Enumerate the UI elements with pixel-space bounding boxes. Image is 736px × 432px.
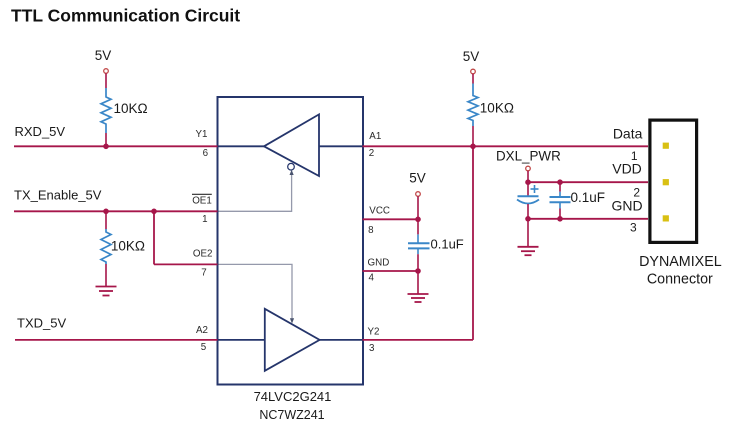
resistor R1 10K pull-up (blue zigzag) [101, 88, 111, 133]
svg-text:RXD_5V: RXD_5V [15, 124, 66, 139]
wire C3 top lead [559, 182, 561, 192]
wire 5V to resistor R2 [472, 74, 474, 84]
wire RXD_5V to Y1 [14, 145, 218, 147]
svg-text:3: 3 [369, 343, 375, 354]
junction RXD/R1 [103, 144, 109, 150]
svg-text:TX_Enable_5V: TX_Enable_5V [14, 188, 102, 203]
ground R3 [96, 287, 117, 296]
svg-text:DYNAMIXEL: DYNAMIXEL [639, 254, 722, 270]
wire VDD rail [528, 181, 648, 183]
svg-text:10KΩ: 10KΩ [114, 101, 148, 116]
buffer U1A (left-pointing triangle) [264, 114, 319, 176]
wire VCC node to capacitor C1 [417, 219, 419, 234]
wire GND rail to connector [528, 218, 648, 220]
connector J1 DYNAMIXEL body [650, 120, 697, 242]
svg-text:10KΩ: 10KΩ [480, 100, 514, 115]
svg-text:A2: A2 [196, 325, 208, 336]
junction VDD/C2 [525, 179, 531, 185]
svg-text:A1: A1 [369, 131, 381, 142]
wire TX_Enable_5V to OE1 [14, 210, 218, 212]
terminal circle DXL_PWR [526, 166, 531, 171]
svg-text:7: 7 [201, 267, 206, 278]
ground DXL [518, 247, 539, 255]
junction VDD/C3 [557, 179, 563, 185]
capacitor C3 top lead (blue) [559, 192, 561, 197]
capacitor C3 bottom lead (blue) [559, 203, 561, 209]
junction GND/C2 [525, 216, 531, 222]
capacitor C2 electrolytic plus sign [531, 185, 539, 193]
IC U1 body 74LVC2G241 [218, 97, 364, 385]
svg-text:2: 2 [369, 148, 374, 159]
wire Y1 internal (apex to left edge) [219, 145, 265, 147]
capacitor C1 top lead (blue) [417, 234, 419, 242]
junction TX_Enable/OE2 branch [151, 209, 157, 215]
wire C3 bottom lead [559, 209, 561, 219]
svg-text:5: 5 [201, 342, 207, 353]
resistor R3 10K pull-down (blue zigzag) [101, 229, 111, 264]
svg-text:10KΩ: 10KΩ [111, 239, 145, 254]
svg-text:0.1uF: 0.1uF [431, 236, 464, 251]
capacitor C1 bottom lead (blue) [417, 249, 419, 254]
terminal circle right 5V [471, 69, 476, 74]
wire C2 top lead [527, 182, 529, 196]
capacitor C3 0.1uF plates [550, 197, 571, 202]
wire GND node to ground [417, 271, 419, 294]
connector pad pin 3 [663, 215, 669, 221]
svg-text:6: 6 [203, 148, 209, 159]
wire 5V to resistor R1 [105, 73, 107, 88]
wire VCC pin [363, 218, 419, 220]
wire 5V terminal to VCC node [417, 196, 419, 219]
svg-text:TTL Communication Circuit: TTL Communication Circuit [11, 6, 240, 26]
svg-text:5V: 5V [409, 170, 426, 185]
svg-text:OE1: OE1 [192, 195, 212, 206]
buffer U1B (right-pointing triangle) [265, 309, 320, 371]
svg-text:8: 8 [368, 225, 374, 236]
wire OE2 enable route [219, 264, 293, 319]
wire DXL ground stub [527, 219, 529, 246]
capacitor C2 electrolytic plates [518, 195, 539, 197]
svg-text:GND: GND [611, 197, 642, 213]
svg-text:74LVC2G241: 74LVC2G241 [254, 389, 332, 404]
wire C1 to GND node [417, 254, 419, 271]
connector pad pin 2 [663, 179, 669, 185]
svg-text:VDD: VDD [612, 160, 642, 176]
buffer U1A enable bubble [288, 163, 295, 170]
capacitor C1 0.1uF plates [408, 243, 430, 248]
wire A1 internal (base to right edge) [319, 145, 363, 147]
svg-text:Y2: Y2 [368, 327, 380, 338]
wire C2 bottom lead [527, 204, 529, 219]
svg-text:5V: 5V [463, 49, 480, 64]
junction Data/R2/Y2 [470, 144, 476, 150]
wire R3 bottom lead to ground [105, 264, 107, 286]
arrowhead OE2 enable [290, 318, 294, 323]
svg-text:Data: Data [613, 125, 643, 141]
svg-text:4: 4 [369, 272, 375, 283]
svg-text:DXL_PWR: DXL_PWR [496, 148, 561, 163]
wire DXL_PWR to VDD node [527, 171, 529, 182]
svg-text:5V: 5V [95, 48, 112, 63]
svg-text:GND: GND [368, 258, 390, 269]
wire GND pin [363, 270, 419, 272]
terminal circle left 5V [104, 69, 109, 74]
ground IC GND [408, 294, 429, 302]
svg-text:0.1uF: 0.1uF [571, 190, 606, 205]
wire Y2 out of IC [363, 339, 474, 341]
svg-text:1: 1 [202, 214, 207, 225]
resistor R2 10K pull-up (blue zigzag) [468, 84, 478, 127]
wire OE2 branch right [154, 263, 218, 265]
wire OE2 branch down [153, 211, 155, 264]
wire R1 to RXD node [105, 133, 107, 146]
wire Y2 internal [320, 339, 363, 341]
arrowhead OE1 enable [290, 170, 294, 175]
wire R2 to Data node [472, 126, 474, 146]
junction GND/C3 [557, 216, 563, 222]
svg-text:OE2: OE2 [193, 249, 213, 260]
svg-text:TXD_5V: TXD_5V [17, 316, 66, 331]
svg-text:NC7WZ241: NC7WZ241 [259, 408, 324, 422]
svg-text:VCC: VCC [369, 206, 390, 217]
junction VCC node [415, 217, 421, 223]
terminal circle VCC 5V [416, 192, 421, 197]
wire OE1 enable route [219, 173, 292, 212]
svg-text:3: 3 [630, 221, 637, 235]
wire A2 internal [219, 339, 265, 341]
wire Y2 feedback vertical [472, 146, 474, 340]
wire A1 to Data / connector [363, 145, 649, 147]
connector pad pin 1 [663, 143, 669, 149]
svg-text:Y1: Y1 [196, 129, 208, 140]
wire TXD_5V to A2 [15, 339, 218, 341]
svg-text:Connector: Connector [647, 272, 713, 288]
junction TX_Enable/R3 [103, 209, 109, 215]
junction GND node [415, 268, 421, 274]
wire R3 top lead [105, 211, 107, 229]
